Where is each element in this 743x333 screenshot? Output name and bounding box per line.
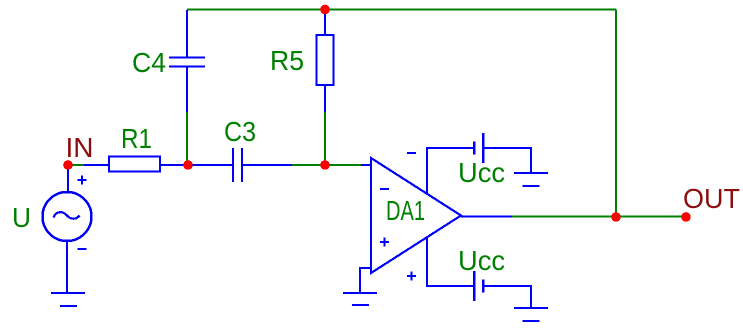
svg-text:IN: IN: [66, 132, 94, 163]
svg-text:R1: R1: [121, 123, 152, 154]
svg-text:Ucc: Ucc: [458, 157, 505, 188]
svg-text:OUT: OUT: [683, 183, 740, 214]
svg-text:R5: R5: [270, 45, 304, 76]
svg-text:C3: C3: [224, 116, 256, 147]
svg-text:U: U: [12, 202, 31, 233]
svg-text:Ucc: Ucc: [458, 245, 505, 276]
svg-text:DA1: DA1: [386, 195, 425, 226]
svg-text:C4: C4: [132, 47, 166, 78]
